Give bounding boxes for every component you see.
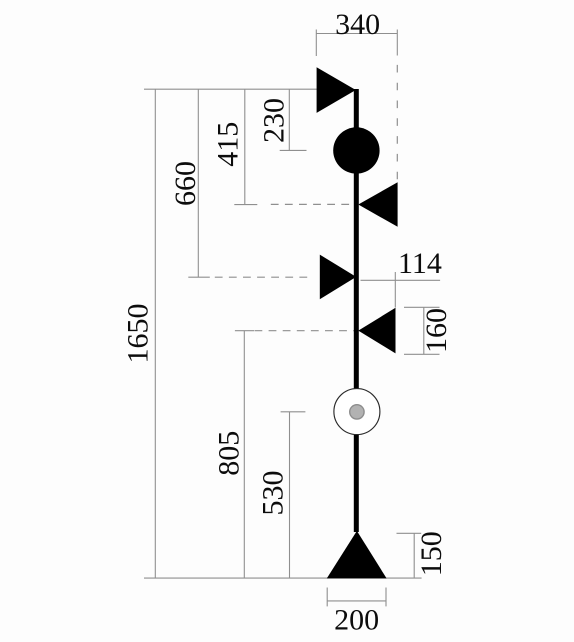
dim line 1650 <box>154 89 156 578</box>
svg-text:530: 530 <box>256 471 289 516</box>
dim line 660 <box>188 89 210 277</box>
sphere ball <box>333 127 379 173</box>
dashed leader 660 to cone C3 tip <box>215 276 309 278</box>
svg-text:340: 340 <box>335 8 380 41</box>
dim line 114 <box>361 272 441 308</box>
base cone <box>327 531 387 579</box>
svg-text:200: 200 <box>334 604 379 637</box>
disc shade outline <box>334 389 380 435</box>
cone C2 left-pointing <box>358 182 397 227</box>
dashed leader 805 to cone C4 tip <box>255 330 357 332</box>
svg-text:660: 660 <box>169 161 202 206</box>
svg-text:805: 805 <box>213 431 246 476</box>
dim line 805 <box>235 331 254 578</box>
lamp stem pole <box>354 89 359 532</box>
dim line 150 <box>397 533 422 578</box>
dashed leader 415 to cone C2 tip <box>271 203 353 205</box>
dim line 415 <box>234 89 257 204</box>
svg-text:415: 415 <box>211 122 244 167</box>
dashed extension right of 340 down to cone tip <box>396 65 398 182</box>
svg-text:150: 150 <box>415 531 448 576</box>
bottom horizontal reference line <box>144 577 422 579</box>
dim line 230 <box>280 89 307 150</box>
cone C3 right-pointing <box>320 255 356 300</box>
svg-text:1650: 1650 <box>121 304 154 364</box>
disc hub gray <box>350 405 364 419</box>
cone C4 left-pointing <box>358 308 395 354</box>
dim line 530 <box>281 412 306 578</box>
svg-text:160: 160 <box>420 308 453 353</box>
dim line 160 <box>404 307 440 354</box>
top horizontal reference line <box>144 88 317 90</box>
svg-text:230: 230 <box>257 98 290 143</box>
dim top width line 340 <box>316 30 397 57</box>
svg-text:114: 114 <box>398 247 442 280</box>
dim line 200 <box>327 588 386 607</box>
cone C1 top right-pointing <box>317 67 356 113</box>
